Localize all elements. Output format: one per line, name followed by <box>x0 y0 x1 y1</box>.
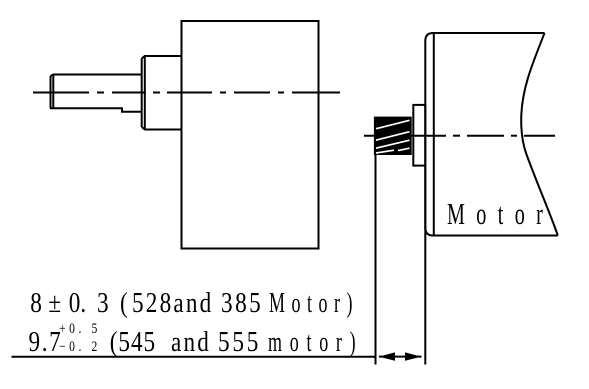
svg-text:9.7: 9.7 <box>29 326 63 358</box>
note line 1: 8 +/- 0.3 (528 and 385 Motor) <box>30 286 359 319</box>
svg-text:and: and <box>171 326 211 358</box>
centerline right assembly <box>364 135 555 137</box>
svg-text:3: 3 <box>97 286 109 318</box>
shaft (left gearbox output) <box>50 75 142 112</box>
svg-text:(545: (545 <box>110 326 156 358</box>
right motor inner seam line <box>433 33 435 236</box>
svg-text:+0. 5: +0. 5 <box>59 320 101 337</box>
flange (mounting boss of right motor) <box>413 105 425 166</box>
svg-text:555: 555 <box>218 326 261 358</box>
bushing (bearing boss) <box>142 56 182 130</box>
pinion (knurled gear on shaft) <box>375 118 411 154</box>
right motor body outline with break line <box>425 33 558 236</box>
svg-text:0.: 0. <box>69 286 86 318</box>
label Motor on right body <box>447 197 554 231</box>
svg-text:motor): motor) <box>268 327 363 358</box>
svg-text:528and: 528and <box>132 286 213 318</box>
svg-text:(: ( <box>120 286 128 318</box>
svg-text:385: 385 <box>221 286 263 318</box>
left motor body <box>182 21 319 249</box>
right motor break (wavy) edge <box>521 33 558 236</box>
dimension leader line (underline of notes) <box>12 356 376 358</box>
svg-text:−0. 2: −0. 2 <box>59 338 101 355</box>
dimension double arrow <box>379 352 422 360</box>
svg-text:Motor): Motor) <box>269 288 359 319</box>
svg-text:8: 8 <box>30 286 42 318</box>
centerline left assembly <box>33 92 340 94</box>
svg-text:±: ± <box>48 286 61 318</box>
note line 2: 9.7 +0.5/-0.2 (545 and 555 motor) <box>29 320 364 358</box>
svg-text:Motor: Motor <box>447 197 554 231</box>
dimension extension line left (from pinion) <box>375 155 377 365</box>
dimension extension line right (from flange face) <box>424 166 426 365</box>
